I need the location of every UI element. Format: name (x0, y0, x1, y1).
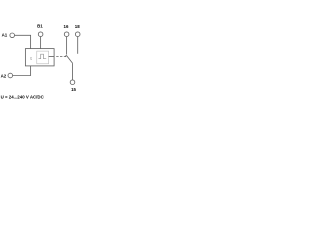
actuation line solid (49, 56, 55, 58)
contact seat 16 (65, 55, 67, 57)
background (0, 0, 90, 120)
svg-text:B1: B1 (37, 24, 43, 29)
terminal circle A1 (10, 33, 15, 38)
wire A1 to box (15, 35, 31, 48)
wire 18 contact (77, 37, 79, 54)
terminal circle B1 (38, 32, 43, 37)
wire B1 to box (40, 37, 42, 49)
wire common 15 (72, 63, 74, 80)
terminal circle A2 (8, 73, 13, 78)
pulse symbol (39, 54, 47, 59)
svg-text:A2: A2 (1, 74, 7, 79)
svg-text:16: 16 (64, 24, 69, 29)
wire 16 contact (66, 37, 68, 55)
terminal circle 15 (70, 80, 75, 85)
svg-text:U = 24...240 V AC/DC: U = 24...240 V AC/DC (1, 95, 45, 100)
terminal circle 16 (64, 32, 69, 37)
svg-text:A1: A1 (2, 32, 8, 37)
terminal circle 18 (75, 32, 80, 37)
svg-text:15: 15 (71, 87, 76, 92)
pulse function box (37, 51, 49, 64)
wire box to A2 (13, 66, 31, 76)
timer box (25, 49, 54, 66)
actuation line dashed (56, 56, 66, 58)
contact blade (67, 56, 73, 63)
svg-text:18: 18 (75, 24, 80, 29)
